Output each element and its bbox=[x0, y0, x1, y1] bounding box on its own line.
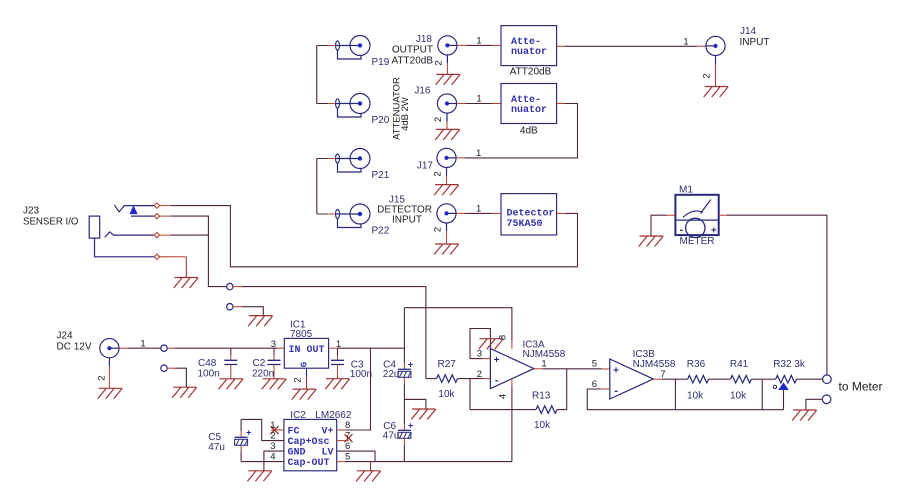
connector J18 bbox=[438, 36, 457, 75]
trimmer R32 bbox=[773, 375, 796, 389]
pin number 1 of J14 bbox=[683, 37, 688, 48]
svg-text:P21: P21 bbox=[372, 170, 390, 181]
pin number 1 of IC1 bbox=[336, 339, 341, 350]
pin number 4 of IC2 bbox=[270, 452, 275, 463]
wire J23 contact3 bbox=[171, 234, 208, 236]
wire J23 sleeve to ground bbox=[171, 257, 186, 278]
svg-text:NJM4558: NJM4558 bbox=[633, 359, 676, 370]
svg-text:J14: J14 bbox=[740, 26, 757, 37]
label IC1 7805 bbox=[290, 320, 313, 341]
pin number 2 of J18 bbox=[434, 60, 445, 65]
svg-text:22u: 22u bbox=[383, 369, 400, 380]
svg-text:R13: R13 bbox=[532, 391, 551, 402]
svg-text:METER: METER bbox=[680, 236, 715, 247]
ground of C4 bbox=[411, 409, 436, 420]
pin 3 of IC2 to ground bbox=[264, 451, 284, 471]
ground of CN-B2 bbox=[172, 387, 197, 398]
pin number 7 of IC2 bbox=[345, 431, 350, 442]
wire J23 ring to node bbox=[171, 216, 227, 287]
connector pin CN-B2 bbox=[161, 365, 167, 371]
meter M1 bbox=[675, 195, 718, 238]
label IC3B NJM4558 bbox=[633, 349, 676, 370]
svg-text:7: 7 bbox=[345, 431, 350, 442]
wire 12V rail to IC1 bbox=[167, 347, 284, 349]
svg-text:4dB 2W: 4dB 2W bbox=[400, 97, 411, 131]
capacitor C2 bbox=[268, 348, 281, 379]
ground of to-meter 2 bbox=[792, 410, 817, 421]
jack J23 switch arrow bbox=[130, 207, 137, 214]
wire negative rail stub to ground bbox=[370, 462, 372, 471]
svg-text:4: 4 bbox=[270, 452, 275, 463]
svg-text:4: 4 bbox=[498, 394, 509, 399]
pin number 1 of J18 bbox=[476, 36, 481, 47]
wire P19-P20 link bbox=[317, 46, 328, 104]
wire J16 to attenuator bbox=[457, 103, 501, 105]
pin 3 of IC3A wire to ground bbox=[470, 329, 490, 359]
wire feedback tap bbox=[761, 379, 763, 410]
svg-text:IC2: IC2 bbox=[290, 410, 306, 421]
pin 5 of IC2 negative rail bbox=[337, 461, 512, 463]
ground of negative rail bbox=[356, 471, 381, 482]
svg-text:R36: R36 bbox=[687, 359, 706, 370]
wire output junction down bbox=[674, 379, 676, 410]
label J18 bbox=[416, 34, 433, 45]
svg-text:6: 6 bbox=[345, 441, 350, 452]
svg-text:R32 3k: R32 3k bbox=[773, 359, 806, 370]
svg-text:6: 6 bbox=[592, 379, 597, 390]
svg-text:G: G bbox=[300, 362, 310, 367]
svg-text:GND: GND bbox=[288, 448, 306, 459]
pin number 5 of IC3B bbox=[592, 359, 597, 370]
pin number 1 of J24 bbox=[140, 339, 145, 350]
regulator IC1 7805 box bbox=[284, 338, 328, 368]
ground of C2 bbox=[262, 379, 287, 390]
svg-text:IN OUT: IN OUT bbox=[289, 345, 325, 356]
connector J15 bbox=[437, 204, 456, 244]
pin number 2 of J14 bbox=[702, 73, 713, 78]
svg-text:J17: J17 bbox=[417, 161, 434, 172]
label R41 10k bbox=[730, 359, 749, 402]
pin 7 of IC3B output bbox=[653, 378, 687, 380]
svg-text:1: 1 bbox=[476, 148, 481, 159]
pin number 1 of J17 bbox=[476, 148, 481, 159]
svg-text:100n: 100n bbox=[350, 369, 372, 380]
svg-text:2: 2 bbox=[702, 73, 713, 78]
pin number 1 of IC2 bbox=[270, 420, 275, 431]
svg-text:M1: M1 bbox=[679, 185, 693, 196]
svg-text:C2: C2 bbox=[253, 358, 266, 369]
wire to-meter 2 to ground bbox=[806, 399, 822, 410]
svg-text:1: 1 bbox=[683, 37, 688, 48]
svg-text:5: 5 bbox=[592, 359, 597, 370]
svg-text:ATT20dB: ATT20dB bbox=[392, 56, 434, 67]
label to Meter bbox=[839, 380, 883, 394]
label R13 10k bbox=[532, 391, 551, 432]
connector pin CN-B1 bbox=[161, 345, 167, 351]
label J23 SENSER I/O bbox=[23, 206, 79, 228]
svg-text:-: - bbox=[680, 224, 684, 236]
svg-text:2: 2 bbox=[433, 117, 444, 122]
ground of C48 bbox=[219, 379, 244, 390]
detector box U-DET bbox=[501, 194, 557, 235]
svg-text:+: + bbox=[711, 226, 717, 237]
pin 2 of IC2 wire to C5+ bbox=[241, 419, 284, 440]
pin 4 of IC3A wire to negative rail bbox=[511, 379, 513, 462]
wire V+ rail to op-amp bbox=[404, 308, 512, 349]
connector P21 bbox=[336, 149, 390, 182]
svg-text:10k: 10k bbox=[438, 389, 455, 400]
label IC3A NJM4558 bbox=[523, 339, 566, 360]
svg-text:Cap-OUT: Cap-OUT bbox=[288, 458, 330, 469]
pin number 8 of IC2 bbox=[345, 420, 350, 431]
svg-text:2: 2 bbox=[270, 431, 275, 442]
svg-text:220n: 220n bbox=[252, 369, 274, 380]
pin number 1 of IC3A bbox=[541, 359, 546, 370]
pin number 6 of IC3B bbox=[592, 379, 597, 390]
resistor R41 bbox=[730, 375, 762, 383]
capacitor C48 bbox=[224, 348, 237, 379]
svg-text:J24: J24 bbox=[57, 331, 74, 342]
ground of J18 bbox=[436, 74, 461, 85]
wire C4 to ground bbox=[404, 399, 426, 409]
svg-text:7: 7 bbox=[660, 369, 665, 380]
svg-text:7805: 7805 bbox=[290, 329, 313, 340]
svg-text:+: + bbox=[494, 355, 500, 366]
svg-text:10k: 10k bbox=[730, 391, 747, 402]
label M1 bbox=[679, 185, 693, 196]
svg-text:1: 1 bbox=[476, 36, 481, 47]
pin number 3 of IC1 bbox=[271, 339, 276, 350]
label C6 47u bbox=[383, 421, 400, 442]
svg-text:nuator: nuator bbox=[511, 47, 547, 58]
ground of J24 bbox=[98, 388, 123, 399]
svg-text:2: 2 bbox=[434, 60, 445, 65]
wire 5V rail bbox=[329, 347, 405, 349]
svg-text:3: 3 bbox=[270, 441, 275, 452]
pin number 3 of IC3A bbox=[477, 349, 482, 360]
connector P20 bbox=[336, 94, 390, 127]
label J16 bbox=[414, 86, 431, 97]
svg-text:-: - bbox=[495, 375, 499, 387]
pin diamond J23-1 bbox=[154, 203, 159, 208]
pin stub J17 pin1 bbox=[456, 157, 465, 159]
pin diamond J23-4 bbox=[154, 254, 159, 259]
wire R32 wiper bbox=[783, 390, 785, 410]
label IC2 LM2662 bbox=[290, 410, 352, 421]
svg-text:2: 2 bbox=[433, 171, 444, 176]
capacitor C4 bbox=[398, 308, 411, 400]
ground of IC2 pin3 bbox=[247, 471, 272, 482]
label METER bbox=[680, 236, 715, 247]
svg-text:47u: 47u bbox=[208, 442, 225, 453]
svg-text:3: 3 bbox=[271, 339, 276, 350]
pin stubs J23 bbox=[160, 206, 172, 257]
svg-text:1: 1 bbox=[476, 94, 481, 105]
svg-text:P22: P22 bbox=[372, 226, 390, 237]
label J15 DETECTOR INPUT bbox=[377, 194, 432, 225]
svg-text:J23: J23 bbox=[23, 206, 40, 217]
plus of C6 bbox=[408, 421, 413, 431]
svg-text:-: - bbox=[614, 385, 618, 397]
capacitor C3 bbox=[331, 348, 344, 379]
svg-text:Detector: Detector bbox=[507, 208, 555, 219]
svg-text:+: + bbox=[408, 421, 413, 431]
svg-text:to Meter: to Meter bbox=[839, 380, 883, 394]
connector J16 bbox=[437, 94, 456, 129]
connector P19 bbox=[336, 36, 390, 69]
svg-text:75KA50: 75KA50 bbox=[507, 219, 543, 230]
wire J15 to detector bbox=[456, 212, 501, 214]
svg-text:V+: V+ bbox=[322, 427, 334, 438]
plus of C5 bbox=[246, 428, 251, 438]
ground of J14 bbox=[704, 87, 729, 98]
wire R41 to R32 bbox=[762, 378, 775, 380]
pin number 6 of IC2 bbox=[345, 441, 350, 452]
pin number 2 of J15 bbox=[433, 227, 444, 232]
svg-text:1: 1 bbox=[541, 359, 546, 370]
label ATT20dB bbox=[510, 67, 552, 78]
label R27 10k bbox=[438, 359, 457, 400]
connector pin to-meter 1 bbox=[823, 375, 832, 384]
pin number 2 of J24 bbox=[96, 375, 107, 380]
label C4 22u bbox=[383, 360, 400, 381]
svg-text:J16: J16 bbox=[414, 86, 431, 97]
svg-text:4dB: 4dB bbox=[520, 126, 538, 137]
label J14 INPUT bbox=[740, 26, 770, 48]
label C3 100n bbox=[350, 360, 372, 381]
ground of J16 bbox=[435, 129, 460, 140]
connector pin to-meter 2 bbox=[822, 395, 831, 404]
jack J23 sleeve wire bbox=[95, 238, 155, 257]
connector J24 bbox=[100, 339, 119, 389]
svg-text:8: 8 bbox=[498, 335, 509, 340]
svg-text:47u: 47u bbox=[383, 431, 400, 442]
plus of C4 bbox=[408, 360, 413, 370]
pin 1 of IC2 no-connect bbox=[271, 426, 284, 434]
wire J24 to link pin bbox=[119, 347, 161, 349]
op-amp IC3A bbox=[490, 349, 534, 389]
svg-text:FC: FC bbox=[288, 427, 300, 438]
pin 1 of IC3A output wire bbox=[534, 368, 610, 370]
attenuator ATT20dB box U-A1 bbox=[501, 26, 557, 66]
pin number 2 of IC1 bbox=[293, 377, 304, 382]
svg-text:2: 2 bbox=[293, 377, 304, 382]
pin stubs P21 P22 bbox=[328, 159, 336, 215]
wire CN-A2 to ground bbox=[233, 307, 263, 316]
jack J23 tip contact bbox=[114, 205, 154, 212]
wire IC3A feedback junction bbox=[469, 379, 471, 410]
connector P22 bbox=[336, 204, 390, 237]
svg-text:ATT20dB: ATT20dB bbox=[510, 67, 552, 78]
svg-text:10k: 10k bbox=[687, 391, 704, 402]
wire J18 to attenuator bbox=[457, 44, 501, 46]
pin stub IC3A pin2 bbox=[482, 378, 490, 380]
ground of J23 bbox=[174, 278, 199, 289]
resistor R13 bbox=[470, 369, 567, 414]
svg-text:INPUT: INPUT bbox=[392, 214, 422, 225]
pin number 2 of J16 bbox=[433, 117, 444, 122]
ground of J17 bbox=[434, 185, 459, 196]
connector J17 bbox=[437, 148, 456, 184]
svg-text:P19: P19 bbox=[372, 57, 390, 68]
pin number 1 of J15 bbox=[476, 204, 481, 215]
jack J23 contact 2 bbox=[131, 215, 154, 217]
label C2 220n bbox=[252, 358, 274, 380]
wire IC1 pin2 to ground bbox=[306, 368, 308, 389]
svg-text:2: 2 bbox=[477, 369, 482, 380]
svg-text:+: + bbox=[246, 428, 251, 438]
wire CN-B2 to ground bbox=[167, 368, 186, 387]
label OUTPUT ATT20dB bbox=[392, 45, 434, 67]
svg-text:100n: 100n bbox=[198, 369, 220, 380]
label J24 DC 12V bbox=[57, 331, 92, 353]
svg-text:R41: R41 bbox=[730, 359, 749, 370]
pin number 2 of IC2 bbox=[270, 431, 275, 442]
svg-text:P20: P20 bbox=[372, 115, 390, 126]
pin 6 of IC3B feedback wire bbox=[587, 389, 783, 410]
pin 8 of IC2 wire to 5V bbox=[337, 348, 371, 430]
connector J14 bbox=[706, 36, 725, 86]
label ATTENUATOR 4dB 2W bbox=[392, 77, 412, 140]
svg-text:2: 2 bbox=[433, 227, 444, 232]
svg-text:DC 12V: DC 12V bbox=[57, 342, 92, 353]
svg-text:Cap+Osc: Cap+Osc bbox=[288, 437, 330, 448]
svg-text:1: 1 bbox=[270, 420, 275, 431]
pin number 4 of IC3A bbox=[498, 394, 509, 399]
svg-text:+: + bbox=[613, 366, 619, 377]
jack J23 sleeve bbox=[89, 216, 100, 238]
ground of CN-A2 bbox=[248, 316, 273, 327]
label C48 100n bbox=[198, 358, 220, 380]
pin number 5 of IC2 bbox=[345, 452, 350, 463]
capacitor C5 bbox=[235, 419, 248, 461]
label R32 3k bbox=[773, 359, 806, 370]
svg-text:LV: LV bbox=[322, 448, 334, 459]
pin number 2 of IC3A bbox=[477, 369, 482, 380]
svg-text:10k: 10k bbox=[534, 420, 551, 431]
capacitor C6 bbox=[398, 399, 411, 461]
svg-text:nuator: nuator bbox=[511, 105, 547, 116]
jack J23 ring contact bbox=[105, 232, 155, 237]
wire detector output to sensor bus bbox=[171, 206, 578, 267]
svg-text:SENSER I/O: SENSER I/O bbox=[23, 217, 79, 228]
attenuator 4dB box U-A2 bbox=[501, 84, 557, 124]
svg-text:+: + bbox=[408, 360, 413, 370]
ground of J15 bbox=[434, 244, 459, 255]
pin number 2 of J17 bbox=[433, 171, 444, 176]
pin number 8 of IC3A bbox=[498, 335, 509, 340]
wire meter right to terminal bbox=[719, 215, 827, 375]
pin stubs P19 P20 bbox=[328, 46, 336, 104]
resistor R36 bbox=[688, 375, 731, 383]
ground of C3 bbox=[325, 379, 350, 390]
ground of IC1 bbox=[292, 389, 317, 400]
svg-text:R27: R27 bbox=[438, 359, 457, 370]
pin diamond J23-3 bbox=[154, 232, 159, 237]
wire 4dB attenuator to J17 bbox=[465, 104, 578, 158]
label J17 bbox=[417, 161, 434, 172]
pin number 7 of IC3B bbox=[660, 369, 665, 380]
label 4dB bbox=[520, 126, 538, 137]
wire meter left to ground bbox=[651, 215, 675, 236]
svg-text:OUTPUT: OUTPUT bbox=[392, 45, 433, 56]
svg-text:C48: C48 bbox=[198, 358, 217, 369]
pin 7 of IC2 no-connect bbox=[337, 434, 353, 442]
svg-text:J18: J18 bbox=[416, 34, 433, 45]
svg-text:8: 8 bbox=[345, 420, 350, 431]
wire R32 to meter terminal bbox=[797, 378, 823, 380]
op-amp IC3B bbox=[610, 359, 654, 399]
resistor R27 bbox=[426, 375, 483, 383]
ground of IC3A pin3 bbox=[479, 339, 504, 350]
pin 6 of IC2 wire to pin5 bbox=[337, 451, 375, 462]
pin 4 of IC2 wire to C5- bbox=[241, 461, 284, 463]
pin number 1 of J16 bbox=[476, 94, 481, 105]
pin diamond J23-2 bbox=[154, 213, 159, 218]
wire P21-P22 link bbox=[317, 159, 328, 215]
svg-text:3: 3 bbox=[477, 349, 482, 360]
svg-text:INPUT: INPUT bbox=[740, 37, 770, 48]
connector pin CN-A2 bbox=[227, 304, 233, 310]
ground of meter bbox=[639, 236, 664, 247]
charge pump IC2 LM2662 box bbox=[284, 419, 337, 470]
wire attenuator to J14 bbox=[557, 45, 706, 47]
svg-text:5: 5 bbox=[345, 452, 350, 463]
label R36 10k bbox=[687, 359, 706, 402]
connector pin CN-A1 bbox=[227, 283, 233, 289]
label C5 47u bbox=[208, 432, 225, 453]
pin number 3 of IC2 bbox=[270, 441, 275, 452]
wire sensor signal to R27 bbox=[233, 287, 426, 379]
svg-text:2: 2 bbox=[96, 375, 107, 380]
